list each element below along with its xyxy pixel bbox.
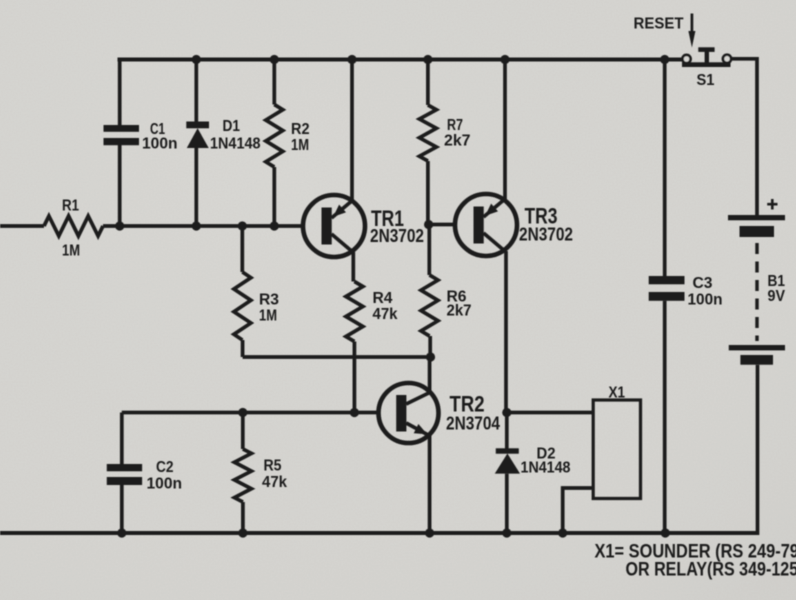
svg-text:1M: 1M bbox=[259, 308, 277, 325]
value 100n (C1) bbox=[142, 136, 178, 153]
resistor R5 bbox=[234, 449, 251, 502]
wire TR2 base rail bbox=[122, 411, 379, 415]
svg-text:2N3702: 2N3702 bbox=[370, 226, 424, 246]
svg-text:R2: R2 bbox=[291, 121, 310, 138]
node top rail R7 bbox=[423, 55, 432, 64]
value 1M (R1) bbox=[62, 243, 80, 260]
capacitor C2 bbox=[107, 464, 142, 485]
switch S1 bridge bar bbox=[682, 62, 731, 67]
node middle rail R2 bbox=[270, 221, 279, 230]
transistor TR1 base bar bbox=[322, 208, 332, 245]
svg-text:2N3704: 2N3704 bbox=[446, 414, 500, 434]
node top rail C3 bbox=[660, 55, 669, 64]
svg-text:47k: 47k bbox=[262, 474, 287, 491]
wire R6 bottom bbox=[428, 336, 432, 357]
resistor R4 bbox=[346, 282, 363, 342]
resistor R2 bbox=[266, 105, 283, 168]
node middle rail C1 bbox=[115, 221, 124, 230]
node junction R6-TR2 collector bbox=[426, 352, 435, 361]
wire R5 bottom bbox=[241, 502, 245, 533]
resistor R6 bbox=[421, 275, 438, 336]
svg-text:R1: R1 bbox=[62, 198, 79, 215]
battery B1 dashed link bbox=[755, 243, 758, 341]
label TR3 bbox=[525, 204, 558, 229]
wire R3 top bbox=[240, 226, 244, 272]
node top rail TR3 emitter bbox=[500, 55, 509, 64]
node middle rail R3 bbox=[238, 221, 247, 230]
capacitor C1 bbox=[104, 125, 140, 145]
switch S1 plunger bbox=[698, 47, 714, 63]
label R5 bbox=[264, 458, 282, 475]
svg-text:1N4148: 1N4148 bbox=[210, 136, 261, 153]
wire middle rail right segment bbox=[103, 224, 304, 228]
wire TR2 emitter down bbox=[428, 435, 432, 534]
capacitor C3 bbox=[649, 276, 685, 301]
wire R4 bottom bbox=[353, 342, 357, 413]
svg-text:9V: 9V bbox=[768, 288, 786, 305]
node bottom rail C3 bbox=[661, 528, 670, 537]
label C1 bbox=[150, 121, 165, 138]
wire R7 top bbox=[426, 60, 430, 106]
wire TR1 emitter to top rail bbox=[350, 60, 354, 202]
svg-text:R4: R4 bbox=[373, 290, 393, 307]
node bottom rail C2 bbox=[117, 528, 126, 537]
wire C3 top bbox=[663, 60, 667, 277]
wire R2 top bbox=[272, 60, 276, 105]
svg-text:1M: 1M bbox=[291, 137, 309, 154]
resistor R3 bbox=[234, 272, 251, 340]
svg-text:1N4148: 1N4148 bbox=[521, 460, 571, 477]
node junction R7-R6-TR3 base bbox=[424, 220, 433, 229]
value 1N4148 (D2) bbox=[521, 460, 571, 477]
svg-text:R3: R3 bbox=[259, 292, 279, 309]
value 47k (R5) bbox=[262, 474, 287, 491]
wire bottom ground rail bbox=[0, 531, 758, 535]
wire top supply rail bbox=[118, 58, 684, 62]
value 2k7 (R7) bbox=[444, 133, 471, 150]
transistor TR2 base bar bbox=[396, 395, 406, 432]
wire X1 top feed bbox=[507, 411, 593, 415]
value 2N3704 (TR2) bbox=[446, 414, 500, 434]
transistor TR3 base bar bbox=[474, 207, 484, 244]
svg-text:D1: D1 bbox=[223, 118, 241, 135]
transistor TR2 collector bbox=[406, 393, 430, 405]
battery B1 plus sign bbox=[767, 199, 777, 210]
value 1M (R3) bbox=[259, 308, 277, 325]
wire R2 bottom bbox=[272, 167, 276, 226]
wire battery bottom feed bbox=[756, 365, 760, 535]
transistor TR3 collector bbox=[484, 233, 506, 252]
wire X1 bottom feed bbox=[563, 488, 594, 533]
label C2 bbox=[156, 459, 174, 476]
value 47k (R4) bbox=[373, 306, 398, 323]
wire D1 bottom bbox=[194, 148, 198, 226]
node junction TR3 collector - D2 - X1 bbox=[502, 408, 511, 417]
label R7 bbox=[447, 117, 463, 134]
value 2k7 (R6) bbox=[447, 303, 472, 320]
value 1M (R2) bbox=[291, 137, 309, 154]
svg-text:OR RELAY(RS 349-125): OR RELAY(RS 349-125) bbox=[626, 559, 796, 581]
battery B1 top long plate bbox=[728, 215, 785, 220]
value 100n (C2) bbox=[147, 476, 183, 493]
svg-text:2k7: 2k7 bbox=[444, 133, 471, 150]
svg-text:R5: R5 bbox=[264, 458, 282, 475]
label TR2 bbox=[450, 392, 485, 417]
wire middle rail left segment bbox=[0, 224, 44, 228]
caption X1 sounder line bbox=[595, 541, 796, 563]
label D2 bbox=[537, 446, 556, 463]
label TR1 bbox=[371, 206, 404, 231]
wire C2 corner bbox=[120, 413, 124, 465]
svg-text:47k: 47k bbox=[373, 306, 398, 323]
value 2N3702 (TR1) bbox=[370, 226, 424, 246]
node bottom rail D2 bbox=[502, 528, 511, 537]
wire D1 top bbox=[194, 60, 198, 123]
node top rail R2 bbox=[270, 55, 279, 64]
wire C3 bottom bbox=[663, 301, 667, 533]
transistor TR2 body circle bbox=[379, 383, 439, 443]
value 100n (C3) bbox=[688, 292, 723, 309]
battery B1 bottom short plate bbox=[740, 355, 773, 365]
wire R7 bottom bbox=[426, 161, 430, 225]
wire TR3 collector down bbox=[504, 251, 508, 413]
label R2 bbox=[291, 121, 310, 138]
value 1N4148 (D1) bbox=[210, 136, 261, 153]
wire S1 right stub bbox=[731, 57, 757, 61]
diode D1 bbox=[186, 122, 209, 149]
svg-text:2N3702: 2N3702 bbox=[519, 225, 573, 245]
wire C1 top bbox=[118, 58, 122, 126]
svg-text:1M: 1M bbox=[62, 243, 80, 260]
battery B1 top short plate bbox=[740, 226, 775, 237]
transistor TR2 emitter (arrow out, NPN) bbox=[406, 423, 428, 435]
wire D2 bottom bbox=[505, 474, 509, 533]
wire TR1 collector down bbox=[351, 252, 355, 282]
resistor R1 bbox=[44, 216, 103, 236]
wire S1 left stub bbox=[665, 58, 683, 62]
svg-text:2k7: 2k7 bbox=[447, 303, 472, 320]
svg-text:C3: C3 bbox=[693, 275, 713, 292]
wire R3/R6/TR2-collector net bbox=[243, 355, 431, 359]
label S1 bbox=[697, 72, 715, 89]
resistor R7 bbox=[419, 105, 436, 161]
label R6 bbox=[447, 289, 467, 306]
wire C1 bottom bbox=[118, 145, 122, 226]
transistor TR3 emitter (arrow into base, PNP) bbox=[484, 200, 505, 218]
wire TR3 emitter to top rail bbox=[503, 60, 507, 201]
label R1 bbox=[62, 198, 79, 215]
wire R6 top bbox=[427, 225, 431, 276]
svg-text:100n: 100n bbox=[688, 292, 723, 309]
switch S1 left contact bbox=[682, 55, 690, 63]
node TR2 base rail R4 bbox=[350, 408, 359, 417]
wire TR3 base bbox=[429, 223, 456, 227]
value 2N3702 (TR3) bbox=[519, 225, 573, 245]
transistor TR3 body circle bbox=[455, 194, 517, 256]
node bottom rail X1 bbox=[558, 528, 567, 537]
node TR2 base rail R5 bbox=[238, 408, 247, 417]
diode D2 bbox=[495, 448, 520, 473]
svg-text:100n: 100n bbox=[142, 136, 178, 153]
node top rail TR1 emitter bbox=[347, 55, 356, 64]
wire D2 top bbox=[505, 413, 509, 450]
label B1 bbox=[768, 273, 786, 290]
label X1 bbox=[609, 385, 626, 402]
transistor TR1 emitter (arrow into base, PNP) bbox=[332, 201, 353, 219]
svg-text:X1: X1 bbox=[609, 385, 626, 402]
value 9V (B1) bbox=[768, 288, 786, 305]
wire battery top feed bbox=[755, 57, 759, 216]
label R3 bbox=[259, 292, 279, 309]
wire R5 top bbox=[241, 413, 245, 450]
label RESET bbox=[634, 16, 685, 33]
wire TR2 collector up bbox=[428, 357, 432, 393]
svg-text:RESET: RESET bbox=[634, 16, 685, 33]
node middle rail D1 bbox=[192, 221, 201, 230]
node top rail D1 bbox=[192, 55, 201, 64]
wire R3 bottom bbox=[241, 340, 245, 357]
svg-text:R7: R7 bbox=[447, 117, 463, 134]
label R4 bbox=[373, 290, 393, 307]
label C3 bbox=[693, 275, 713, 292]
reset arrow bbox=[688, 14, 695, 48]
switch S1 right contact bbox=[723, 55, 731, 63]
battery B1 bottom long plate bbox=[729, 345, 785, 350]
node bottom rail R5 bbox=[238, 528, 247, 537]
svg-text:C2: C2 bbox=[156, 459, 174, 476]
caption X1 relay line bbox=[626, 559, 796, 581]
label D1 bbox=[223, 118, 241, 135]
wire C2 bottom bbox=[120, 485, 124, 533]
transistor TR1 body circle bbox=[303, 195, 365, 257]
component X1 box bbox=[593, 400, 640, 499]
svg-text:100n: 100n bbox=[147, 476, 183, 493]
transistor TR1 collector bbox=[332, 234, 354, 253]
node bottom rail TR2 emitter bbox=[425, 528, 434, 537]
svg-text:S1: S1 bbox=[697, 72, 715, 89]
